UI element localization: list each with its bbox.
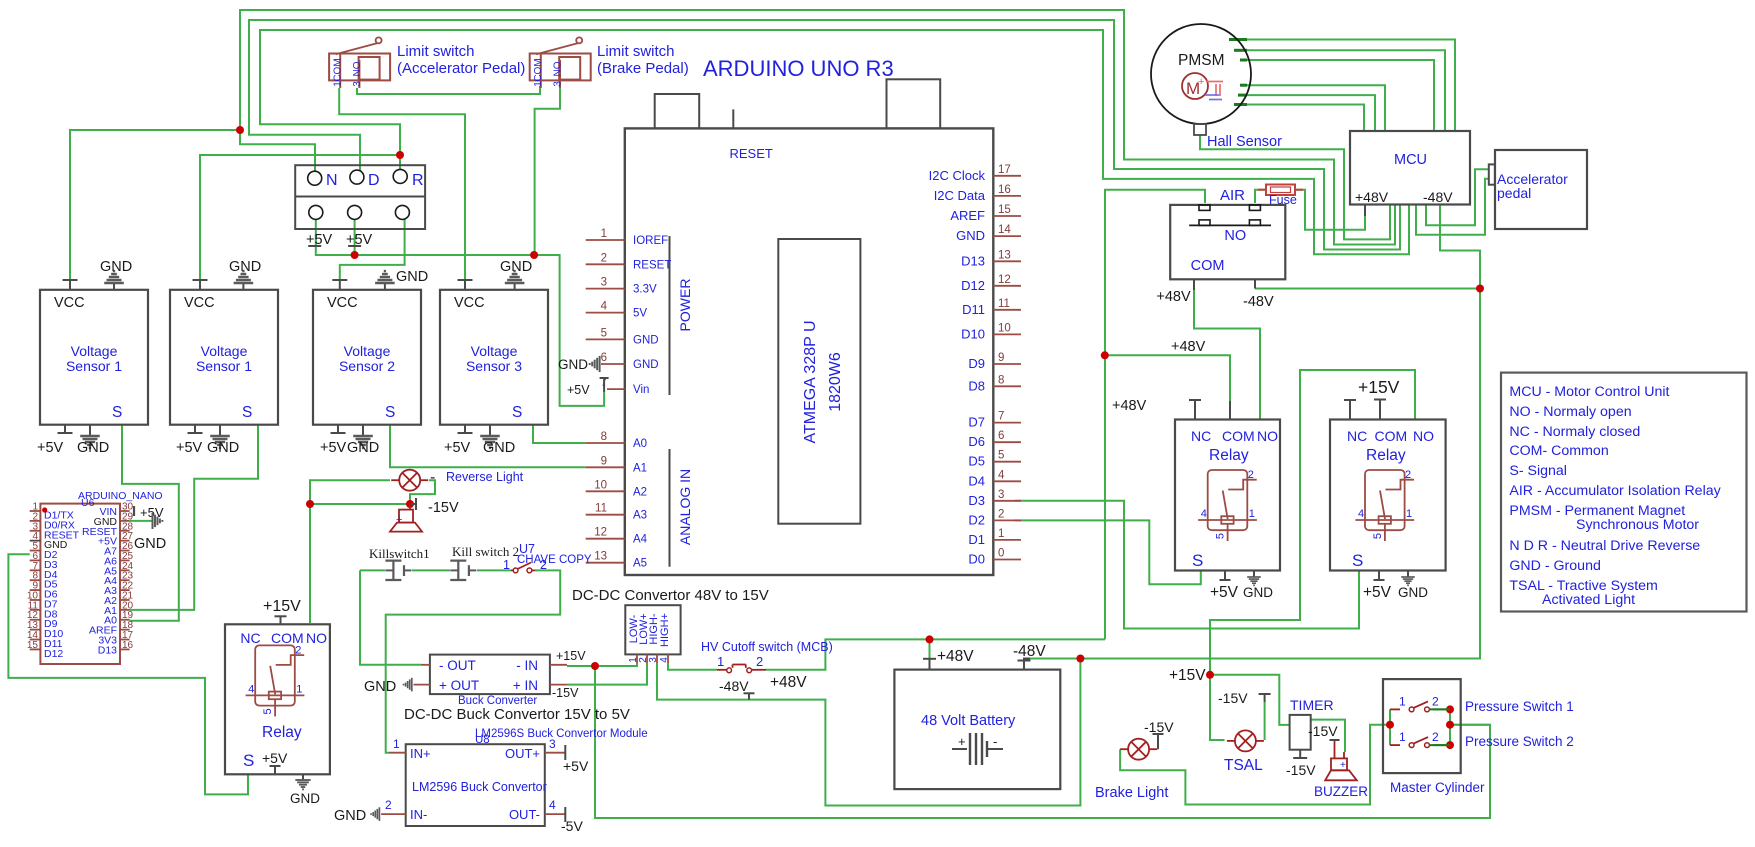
svg-text:Relay: Relay: [1366, 447, 1406, 464]
svg-text:4: 4: [601, 301, 608, 313]
svg-text:Brake Light: Brake Light: [1095, 785, 1168, 801]
svg-text:1: 1: [1399, 694, 1406, 708]
svg-text:1: 1: [1249, 508, 1255, 520]
svg-text:NC: NC: [1347, 428, 1367, 444]
svg-text:15: 15: [27, 640, 39, 651]
svg-text:COM: COM: [1375, 428, 1408, 444]
svg-text:NO: NO: [306, 630, 327, 646]
svg-text:+5V: +5V: [563, 758, 589, 774]
svg-text:12: 12: [998, 274, 1011, 286]
svg-text:COM- Common: COM- Common: [1509, 443, 1608, 459]
svg-text:-5V: -5V: [561, 818, 583, 834]
svg-text:N: N: [326, 172, 338, 189]
svg-text:1: 1: [503, 558, 510, 572]
svg-text:GND: GND: [290, 791, 320, 806]
svg-text:TIMER: TIMER: [1290, 697, 1334, 713]
svg-text:11: 11: [998, 298, 1010, 310]
svg-text:4: 4: [248, 683, 254, 695]
svg-text:D5: D5: [968, 454, 985, 469]
svg-text:AREF: AREF: [950, 208, 985, 223]
svg-text:13: 13: [998, 249, 1011, 261]
svg-text:GND: GND: [1243, 585, 1273, 600]
svg-text:11: 11: [595, 503, 607, 515]
svg-text:D13: D13: [98, 644, 117, 656]
svg-text:GND: GND: [396, 269, 428, 285]
svg-text:Pressure Switch 2: Pressure Switch 2: [1465, 734, 1574, 749]
svg-text:2: 2: [756, 654, 763, 669]
svg-text:IN-: IN-: [410, 807, 427, 822]
svg-text:5V: 5V: [633, 308, 647, 320]
svg-text:(Brake Pedal): (Brake Pedal): [597, 60, 689, 77]
svg-text:D12: D12: [961, 278, 985, 293]
svg-text:+48V: +48V: [1156, 289, 1191, 305]
svg-text:Hall Sensor: Hall Sensor: [1207, 134, 1282, 150]
svg-text:GND: GND: [558, 357, 588, 372]
svg-text:1: 1: [393, 737, 400, 751]
svg-text:(Accelerator Pedal): (Accelerator Pedal): [397, 60, 525, 77]
svg-text:2: 2: [998, 508, 1004, 520]
svg-text:-15V: -15V: [552, 686, 579, 700]
svg-text:15: 15: [998, 204, 1011, 216]
svg-text:GND: GND: [207, 440, 239, 456]
svg-text:+5V: +5V: [37, 440, 64, 456]
svg-text:8: 8: [601, 431, 607, 443]
svg-text:TSAL: TSAL: [1224, 757, 1263, 774]
svg-text:Relay: Relay: [262, 724, 302, 741]
svg-text:S: S: [112, 404, 122, 421]
svg-text:D8: D8: [968, 378, 985, 393]
svg-text:+5V: +5V: [262, 750, 288, 766]
svg-text:GND: GND: [334, 808, 366, 824]
svg-text:+5V: +5V: [176, 440, 203, 456]
svg-text:10: 10: [998, 322, 1011, 334]
svg-text:-15V: -15V: [1144, 719, 1174, 735]
svg-text:+ IN: + IN: [513, 678, 538, 693]
svg-text:GND: GND: [483, 440, 515, 456]
svg-text:AIR - Accumulator Isolation Re: AIR - Accumulator Isolation Relay: [1509, 483, 1721, 499]
svg-text:4: 4: [1358, 508, 1364, 520]
svg-text:VCC: VCC: [184, 295, 215, 311]
svg-text:1: 1: [1406, 508, 1412, 520]
svg-text:+5V: +5V: [320, 440, 347, 456]
svg-text:D0: D0: [968, 552, 985, 567]
svg-text:+5V: +5V: [1210, 584, 1239, 601]
svg-text:ARDUINO UNO R3: ARDUINO UNO R3: [703, 56, 894, 81]
svg-text:16: 16: [122, 640, 134, 651]
svg-text:1: 1: [717, 654, 724, 669]
svg-text:S: S: [1352, 551, 1363, 570]
svg-text:-15V: -15V: [1286, 762, 1316, 778]
svg-text:2: 2: [1432, 694, 1439, 708]
svg-text:+: +: [1340, 760, 1346, 771]
svg-text:GND: GND: [956, 228, 985, 243]
svg-text:A2: A2: [633, 486, 647, 498]
svg-text:Synchronous Motor: Synchronous Motor: [1576, 517, 1699, 533]
svg-text:ANALOG IN: ANALOG IN: [677, 469, 693, 545]
svg-text:NC - Normaly closed: NC - Normaly closed: [1509, 424, 1640, 440]
svg-text:16: 16: [998, 184, 1011, 196]
svg-text:IN+: IN+: [410, 746, 431, 761]
svg-text:+48V: +48V: [770, 674, 807, 691]
svg-text:+5V: +5V: [444, 440, 471, 456]
svg-text:+: +: [396, 514, 402, 526]
svg-text:+15V: +15V: [556, 649, 586, 663]
svg-text:DC-DC Buck Convertor 15V to 5V: DC-DC Buck Convertor 15V to 5V: [404, 706, 630, 723]
svg-text:A1: A1: [633, 462, 647, 474]
svg-text:8: 8: [998, 374, 1004, 386]
svg-text:1: 1: [533, 81, 544, 87]
svg-text:-15V: -15V: [428, 500, 459, 516]
svg-text:Killswitch1: Killswitch1: [369, 546, 430, 561]
svg-text:Relay: Relay: [1209, 447, 1249, 464]
svg-text:VCC: VCC: [327, 295, 358, 311]
svg-text:-15V: -15V: [1308, 723, 1338, 739]
svg-text:S: S: [242, 404, 252, 421]
svg-text:I2C Data: I2C Data: [934, 188, 986, 203]
svg-text:S- Signal: S- Signal: [1509, 463, 1567, 479]
svg-text:1: 1: [601, 228, 607, 240]
svg-text:GND: GND: [500, 259, 532, 275]
svg-text:10: 10: [594, 479, 607, 491]
svg-text:COM: COM: [333, 58, 344, 81]
svg-text:COM: COM: [533, 58, 544, 81]
svg-text:1: 1: [333, 81, 344, 87]
svg-text:Sensor 1: Sensor 1: [66, 358, 122, 374]
svg-text:Pressure Switch 1: Pressure Switch 1: [1465, 699, 1574, 714]
svg-text:ATMEGA 328P U: ATMEGA 328P U: [802, 320, 819, 443]
svg-text:5: 5: [601, 327, 607, 339]
svg-text:4: 4: [549, 798, 556, 812]
svg-text:GND: GND: [134, 536, 166, 552]
svg-text:D11: D11: [962, 302, 985, 317]
svg-text:2: 2: [295, 644, 301, 656]
svg-text:-48V: -48V: [1243, 294, 1274, 310]
svg-text:MCU: MCU: [1394, 152, 1427, 168]
svg-text:PMSM: PMSM: [1178, 52, 1225, 69]
svg-text:+ OUT: + OUT: [439, 678, 479, 693]
svg-text:+15V: +15V: [1358, 377, 1400, 397]
svg-text:5: 5: [262, 708, 274, 714]
svg-text:NC: NC: [1191, 428, 1211, 444]
svg-text:NO: NO: [1224, 228, 1246, 244]
svg-text:-48V: -48V: [1423, 189, 1453, 205]
svg-text:+48V: +48V: [1171, 339, 1206, 355]
svg-text:DC-DC Convertor 48V to 15V: DC-DC Convertor 48V to 15V: [572, 587, 769, 604]
svg-text:N D R - Neutral Drive Reverse: N D R - Neutral Drive Reverse: [1509, 538, 1700, 554]
svg-text:Activated Light: Activated Light: [1542, 592, 1635, 608]
svg-text:Voltage: Voltage: [344, 343, 391, 359]
svg-text:D: D: [368, 172, 380, 189]
svg-text:GND: GND: [1398, 585, 1428, 600]
svg-text:D13: D13: [961, 253, 985, 268]
svg-text:VCC: VCC: [54, 295, 85, 311]
svg-text:GND: GND: [347, 440, 379, 456]
svg-text:Fuse: Fuse: [1269, 193, 1297, 207]
svg-text:A5: A5: [633, 558, 647, 570]
svg-text:3: 3: [648, 657, 659, 663]
svg-text:12: 12: [594, 527, 607, 539]
svg-text:VCC: VCC: [454, 295, 485, 311]
svg-text:HV Cutoff switch (MCB): HV Cutoff switch (MCB): [701, 640, 833, 654]
svg-text:D10: D10: [961, 326, 985, 341]
svg-text:-: -: [430, 469, 435, 486]
svg-text:2: 2: [601, 252, 607, 264]
svg-text:5: 5: [1372, 533, 1384, 539]
svg-text:2: 2: [1248, 469, 1254, 481]
svg-text:A0: A0: [633, 438, 647, 450]
svg-text:+5V: +5V: [346, 232, 373, 248]
svg-text:- OUT: - OUT: [439, 658, 476, 673]
svg-text:1820W6: 1820W6: [827, 352, 844, 412]
svg-text:-15V: -15V: [1218, 690, 1248, 706]
svg-text:3: 3: [601, 277, 607, 289]
svg-text:HIGH+: HIGH+: [659, 613, 671, 647]
svg-text:5: 5: [998, 450, 1004, 462]
svg-text:+48V: +48V: [937, 648, 974, 665]
svg-text:NC: NC: [240, 630, 260, 646]
svg-text:0: 0: [998, 548, 1004, 560]
svg-text:Sensor 1: Sensor 1: [196, 358, 252, 374]
svg-text:LM2596S Buck Convertor Module: LM2596S Buck Convertor Module: [475, 728, 648, 740]
svg-text:OUT-: OUT-: [509, 807, 540, 822]
svg-text:S: S: [512, 404, 522, 421]
svg-text:2: 2: [385, 798, 392, 812]
svg-text:D12: D12: [44, 648, 63, 660]
svg-text:D9: D9: [968, 356, 985, 371]
svg-text:Voltage: Voltage: [71, 343, 118, 359]
svg-text:3: 3: [998, 489, 1004, 501]
svg-text:-48V: -48V: [719, 678, 749, 694]
svg-text:+5V: +5V: [567, 383, 590, 397]
svg-text:S: S: [385, 404, 395, 421]
svg-text:D7: D7: [968, 415, 985, 430]
svg-text:9: 9: [998, 352, 1004, 364]
svg-text:A3: A3: [633, 510, 647, 522]
svg-text:GND: GND: [229, 259, 261, 275]
svg-text:+: +: [1198, 76, 1204, 88]
svg-text:+48V: +48V: [1355, 189, 1389, 205]
svg-text:IOREF: IOREF: [633, 235, 668, 247]
svg-text:+5V: +5V: [306, 232, 333, 248]
svg-text:3: 3: [549, 737, 556, 751]
svg-text:+5V: +5V: [1363, 584, 1392, 601]
svg-text:1: 1: [998, 528, 1004, 540]
svg-text:U6: U6: [81, 497, 95, 509]
svg-text:4: 4: [659, 657, 670, 663]
svg-text:7: 7: [998, 411, 1004, 423]
svg-text:4: 4: [998, 469, 1005, 481]
svg-text:NO - Normaly open: NO - Normaly open: [1509, 404, 1631, 420]
svg-text:D3: D3: [968, 493, 985, 508]
svg-text:COM: COM: [1191, 258, 1225, 274]
svg-text:- IN: - IN: [516, 658, 538, 673]
svg-text:Voltage: Voltage: [471, 343, 518, 359]
svg-text:+48V: +48V: [1112, 398, 1147, 414]
svg-text:3: 3: [552, 81, 563, 87]
svg-text:RESET: RESET: [633, 259, 671, 271]
svg-text:GND: GND: [633, 334, 659, 346]
svg-text:9: 9: [601, 455, 607, 467]
svg-text:D2: D2: [968, 512, 985, 527]
svg-text:-: -: [993, 734, 997, 749]
svg-text:4: 4: [1201, 508, 1207, 520]
svg-text:R: R: [412, 172, 424, 189]
svg-text:Master Cylinder: Master Cylinder: [1390, 780, 1485, 795]
svg-text:D6: D6: [968, 434, 985, 449]
svg-text:POWER: POWER: [677, 279, 693, 332]
svg-text:14: 14: [998, 224, 1011, 236]
svg-text:AIR: AIR: [1220, 187, 1245, 204]
svg-text:RESET: RESET: [730, 146, 773, 161]
svg-text:LM2596 Buck Convertor: LM2596 Buck Convertor: [412, 780, 547, 794]
svg-text:GND - Ground: GND - Ground: [1509, 558, 1600, 574]
svg-text:Voltage: Voltage: [201, 343, 248, 359]
svg-text:2: 2: [540, 558, 547, 572]
svg-text:pedal: pedal: [1497, 185, 1531, 201]
svg-text:I2C Clock: I2C Clock: [929, 168, 986, 183]
svg-text:COM: COM: [1222, 428, 1255, 444]
svg-text:Sensor 3: Sensor 3: [466, 358, 522, 374]
svg-text:D1: D1: [968, 532, 985, 547]
svg-text:NO: NO: [352, 61, 363, 76]
svg-text:+: +: [958, 734, 966, 749]
svg-text:Vin: Vin: [633, 384, 649, 396]
svg-text:1: 1: [1399, 730, 1406, 744]
svg-text:NO: NO: [1257, 428, 1278, 444]
svg-text:-48V: -48V: [1013, 643, 1046, 660]
svg-text:+15V: +15V: [1169, 667, 1206, 684]
svg-text:MCU - Motor Control Unit: MCU - Motor Control Unit: [1509, 384, 1669, 400]
svg-text:Reverse Light: Reverse Light: [446, 470, 524, 484]
svg-text:Limit switch: Limit switch: [397, 43, 475, 60]
svg-text:2: 2: [1432, 730, 1439, 744]
svg-text:Sensor 2: Sensor 2: [339, 358, 395, 374]
svg-text:NO: NO: [552, 61, 563, 76]
svg-text:48 Volt Battery: 48 Volt Battery: [921, 713, 1016, 729]
svg-text:2: 2: [1405, 469, 1411, 481]
svg-text:1: 1: [296, 683, 302, 695]
svg-text:3.3V: 3.3V: [633, 284, 657, 296]
svg-text:NO: NO: [1413, 428, 1434, 444]
svg-text:S: S: [243, 751, 254, 770]
svg-text:13: 13: [594, 551, 607, 563]
svg-text:OUT+: OUT+: [505, 746, 540, 761]
svg-text:S: S: [1192, 551, 1203, 570]
svg-text:Kill switch 2: Kill switch 2: [452, 544, 519, 559]
svg-text:BUZZER: BUZZER: [1314, 784, 1368, 799]
svg-text:17: 17: [998, 164, 1011, 176]
svg-text:A4: A4: [633, 534, 648, 546]
svg-text:GND: GND: [77, 440, 109, 456]
svg-text:6: 6: [601, 352, 607, 364]
svg-text:6: 6: [998, 430, 1004, 442]
svg-text:Limit switch: Limit switch: [597, 43, 675, 60]
svg-text:GND: GND: [100, 259, 132, 275]
svg-text:GND: GND: [364, 679, 396, 695]
svg-text:GND: GND: [633, 359, 659, 371]
svg-text:5: 5: [1215, 533, 1227, 539]
svg-text:D4: D4: [968, 473, 985, 488]
svg-text:3: 3: [352, 81, 363, 87]
svg-text:+15V: +15V: [263, 598, 301, 615]
